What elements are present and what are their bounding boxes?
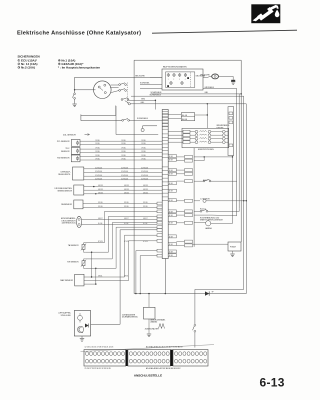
svg-text:OR/BL: OR/BL [141,143,146,145]
connector area leader line [81,345,215,352]
wire: vertical drop at x=74.6 [74,77,76,93]
svg-text:OR/BL: OR/BL [121,143,126,145]
strip pin ticks upper [162,110,168,112]
svg-text:OR/BL: OR/BL [141,140,146,142]
wire to distributor [75,89,94,91]
small box above connector [148,294,150,308]
svg-text:MAP SENSOR: MAP SENSOR [60,279,73,282]
svg-text:25 26 27 28 29 30 31 32 33 34: 25 26 27 28 29 30 31 32 33 34 35 [85,368,111,370]
EACV [73,167,84,180]
svg-text:SCHW/GE: SCHW/GE [95,178,102,180]
switch in bottom path [194,324,196,326]
corridor wire MAP2 to strip [84,241,157,281]
switch bank (idle/clutch switches) [119,84,121,86]
svg-text:GEL/SCHW: GEL/SCHW [200,75,210,77]
long bottom line with diode [134,293,246,295]
svg-text:GR/RT: GR/RT [143,218,148,220]
svg-text:SENSOR: SENSOR [61,151,70,153]
connector block 3 [173,350,208,366]
svg-text:GEL: GEL [141,102,145,104]
divider bar 1 [126,350,128,366]
svg-text:OR/BL: OR/BL [95,151,100,153]
vertical into ECU top [154,100,156,109]
svg-text:WS/BL: WS/BL [143,202,148,204]
svg-text:WS/BL: WS/BL [124,206,129,208]
svg-text:GR/RT: GR/RT [98,218,103,220]
svg-text:OR/BL: OR/BL [141,148,146,150]
component row y=200.8 O2 [194,200,200,202]
connector block 2 [128,350,170,366]
wire MAP3 to ground bus [84,283,96,285]
wire y=103.8 GEL [130,103,246,105]
component row y=208.3 [194,210,200,212]
svg-text:EINSPRITZDÜSEN: EINSPRITZDÜSEN [198,148,214,151]
svg-text:OR/BL: OR/BL [141,159,146,161]
svg-text:SCHW/GE: SCHW/GE [121,178,128,180]
svg-text:SCHW/GE: SCHW/GE [121,171,128,173]
wire: main feed top line y=77.3 [75,76,162,78]
svg-text:12 13 14 15 16 17 18 19 20 21: 12 13 14 15 16 17 18 19 20 21 22 23 [85,346,114,348]
wire y=88.5 GRUE/GELB [203,88,237,90]
svg-text:6-13: 6-13 [260,376,285,390]
svg-text:OR/BL: OR/BL [121,140,126,142]
legend: fuses [18,55,101,70]
wires ECU to injector block [168,131,183,133]
main relay box with transistor [74,311,90,337]
ZYL sensor [71,140,80,147]
small switch on y=120.6 wire [122,119,124,121]
svg-text:SCHW/GE: SCHW/GE [95,167,102,169]
svg-text:GR/WS: GR/WS [124,185,129,187]
svg-text:SCHW/GELB: SCHW/GELB [151,92,163,94]
svg-text:TW SENSOR: TW SENSOR [67,262,79,264]
svg-text:SCHW/GE: SCHW/GE [95,175,102,177]
svg-text:A1 A3 A5 A7 A9 A11 A13 A15 A17: A1 A3 A5 A7 A9 A11 A13 A15 A17 B1 B3 B5 … [146,345,183,348]
ECU strip bottom vertical [164,259,166,294]
top line y=60.2 [134,60,241,242]
svg-text:GRÜ: GRÜ [141,98,146,101]
right bus verticals [243,96,245,289]
left-side small boxes lower strip [157,202,162,205]
oval connector (atmospheric sensor) [77,216,82,227]
svg-text:SCHW/GE: SCHW/GE [141,171,148,173]
svg-text:A2 A4 A6 A8 A10 A12 B2 B4 B6 B: A2 A4 A6 A8 A10 A12 B2 B4 B6 B8 B10 B12 [146,367,180,370]
resistor box bottom wire down [232,156,234,224]
connector pins [85,352,88,356]
svg-text:OR/BL: OR/BL [95,155,100,157]
ECU connector strip [162,110,168,259]
svg-text:ZUL.SENSOR: ZUL.SENSOR [63,134,76,136]
svg-text:SCHW/GE: SCHW/GE [95,171,102,173]
svg-text:WS/BL: WS/BL [98,202,103,204]
svg-text:WS/BL: WS/BL [124,202,129,204]
MAP sensor [75,274,84,286]
resistor box [228,107,234,156]
long vertical x=134.1 [133,60,135,293]
wires right of fuse box [203,76,209,78]
svg-text:GR/WS: GR/WS [98,189,103,191]
svg-text:(UNTERDRUCK): (UNTERDRUCK) [62,223,76,225]
connector block 1 [84,350,126,366]
svg-text:KW SENSOR: KW SENSOR [57,158,70,160]
svg-text:REGELVENTIL: REGELVENTIL [58,174,70,176]
svg-text:WS/BL: WS/BL [98,206,103,208]
transistor feed: strip down to main relay [91,230,157,324]
svg-text:GR/WS: GR/WS [124,192,129,194]
svg-text:OR/BL: OR/BL [121,148,126,150]
strip drop wire 2 to bottom line [140,256,157,294]
svg-text:OR/BL: OR/BL [121,159,126,161]
svg-text:OR/BL: OR/BL [95,159,100,161]
zigzag component [159,324,165,329]
drop to relay/switch path [195,288,244,290]
svg-text:③ Nr.2 (10A): ③ Nr.2 (10A) [18,65,36,69]
svg-text:SCHW/GELB: SCHW/GELB [137,118,149,120]
oval component (main relay coil?) [212,74,219,79]
injector block [182,128,229,147]
right-side label boxes of strip [168,155,176,158]
fuel drop [275,10,280,18]
svg-text:OR/BL: OR/BL [95,140,100,142]
svg-text:OR/BL: OR/BL [95,148,100,150]
dashed linkage [127,83,129,105]
svg-text:OR/BL: OR/BL [141,151,146,153]
injector feed box [181,113,194,121]
svg-text:GR/WS: GR/WS [124,189,129,191]
small junction squares inside fuse box [167,85,169,87]
svg-text:SCHW/GEL: SCHW/GEL [140,83,150,85]
component row y=180 (switch) [194,180,203,182]
section icon: fuel system (black box, white nozzle) [251,4,280,23]
svg-text:SCHW/GE: SCHW/GE [121,175,128,177]
svg-text:OR/BL: OR/BL [95,143,100,145]
svg-text:* : Im Hauptsicherungskasten: * : Im Hauptsicherungskasten [58,65,100,69]
svg-text:WS/BL: WS/BL [143,206,148,208]
svg-text:SCHW/GE: SCHW/GE [121,167,128,169]
svg-text:SCHW/GELB: SCHW/GELB [150,94,162,96]
svg-text:OR/BL: OR/BL [121,151,126,153]
corridor wire TA-top to strip [86,211,157,242]
noise capacitor [141,128,144,131]
svg-text:GRÜ/GELB: GRÜ/GELB [205,86,215,89]
distributor (circle) [94,81,112,99]
PGM-FI relay box [228,242,241,251]
svg-text:GR/WS: GR/WS [98,192,103,194]
svg-text:SCHW/GE: SCHW/GE [141,167,148,169]
svg-text:BL/GE: BL/GE [98,223,102,225]
fuse symbols [167,74,170,77]
svg-text:ZÜNDSCHALTER: ZÜNDSCHALTER [145,328,159,331]
svg-text:PGM-FI: PGM-FI [230,247,236,249]
title rule [152,30,297,33]
svg-text:RT/WS: RT/WS [143,241,148,243]
corridor wire TW-top to strip [86,223,157,259]
drop to ground from oval wire [232,76,234,79]
svg-text:ZYL.SENSOR: ZYL.SENSOR [57,141,70,143]
middle pin column vertical [193,148,195,247]
svg-text:GR/WS: GR/WS [98,185,103,187]
switch S1 to ground (vertical) [74,93,76,95]
component circle y=223.5 [194,222,205,224]
MAIN SCHEMATIC [55,60,247,377]
svg-text:BL/GE: BL/GE [124,223,128,225]
svg-text:GEL/SCHW: GEL/SCHW [135,76,145,78]
vertical x=116 from distributor, ZUL wire [115,106,117,135]
sensor wires with tiny color labels [80,140,162,142]
strip drop wire 1 to bottom line [136,251,157,294]
svg-text:TA SENSOR: TA SENSOR [68,244,79,247]
svg-text:STELLGLIED: STELLGLIED [61,315,72,317]
KW sensor [71,155,80,162]
wire below fuse box [151,93,242,95]
svg-text:GR/WS: GR/WS [143,192,148,194]
svg-text:PA SENSOR: PA SENSOR [61,203,72,206]
svg-text:SCHW/GE: SCHW/GE [141,175,148,177]
wire y=96.2 to right bus [131,95,244,97]
component row y=215.8 [194,214,212,216]
divider bar 2 [170,350,173,366]
diode [205,291,209,295]
wires to relay [193,243,229,245]
middle pin boxes [185,155,193,158]
bracket wires under distributor [81,116,122,121]
svg-text:Elektrische Anschlüsse (Ohne K: Elektrische Anschlüsse (Ohne Katalysator… [17,31,141,37]
svg-text:GR/WS: GR/WS [143,185,148,187]
svg-text:(SCHWARZ/WEISS): (SCHWARZ/WEISS) [122,316,138,319]
svg-text:RT/WS: RT/WS [98,241,103,243]
corridor wire TA-bot to strip [86,216,157,252]
TDC2 sensor box [74,200,83,209]
corridor wire TW-bot to strip [86,227,157,268]
corridor wire MAP1 to strip [84,235,157,277]
svg-text:WINKELSENSOR: WINKELSENSOR [58,190,73,192]
TDC sensor [71,148,80,155]
svg-text:GR/BL: GR/BL [98,276,103,278]
svg-text:BL/GE: BL/GE [143,223,147,225]
transistor [77,326,83,332]
svg-text:GR/WS: GR/WS [143,189,148,191]
svg-text:HAUPTSICHERUNGSKASTEN: HAUPTSICHERUNGSKASTEN [163,66,188,69]
svg-text:RT/WS: RT/WS [124,241,129,243]
svg-text:SCHW/GE: SCHW/GE [141,178,148,180]
wires from distributor to switch bank [111,84,119,86]
throttle angle sensor [74,185,84,195]
wire y=100.3 [130,99,156,101]
sensor ground bus stubs [91,252,93,277]
svg-text:OR/BL: OR/BL [121,155,126,157]
svg-text:ANSCHLUSSTELLE: ANSCHLUSSTELLE [134,373,162,377]
svg-text:OR/BL: OR/BL [141,155,146,157]
svg-text:GR/RT: GR/RT [124,218,129,220]
svg-text:TF: TF [212,292,214,294]
A5/A7 bracket wire [194,156,204,158]
ground below S1 [72,103,76,105]
